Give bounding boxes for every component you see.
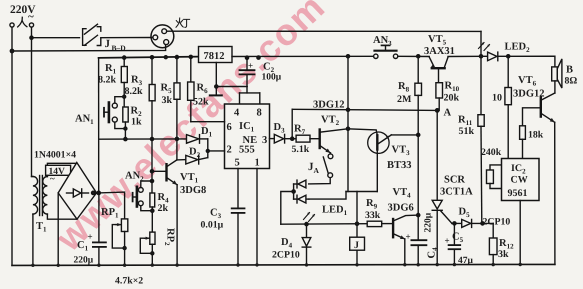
node dot C5 top <box>453 222 456 225</box>
node dot AN2 bottom <box>151 209 154 212</box>
wire bridge plus to RP1 <box>99 192 125 219</box>
svg-text:8Ω: 8Ω <box>565 76 578 87</box>
svg-text:4: 4 <box>234 108 240 119</box>
wire VT1 emitter column <box>176 185 178 265</box>
svg-text:D4: D4 <box>281 237 293 250</box>
wire to switch <box>32 37 80 39</box>
diode D1 <box>187 126 213 143</box>
node dot BT33 emitter <box>417 133 420 136</box>
resistor R6 <box>188 57 209 122</box>
wire col bottom link <box>346 191 377 193</box>
wire D1 D2 join vertical <box>207 139 209 158</box>
transformer T1 primary <box>32 177 38 266</box>
node dot gnd <box>215 85 218 88</box>
svg-text:R5: R5 <box>161 83 173 96</box>
node junction <box>30 36 33 39</box>
wire pin8 stub <box>259 93 261 104</box>
node dot AN1 bottom <box>124 127 127 130</box>
svg-text:52k: 52k <box>193 97 209 108</box>
svg-text:VT5: VT5 <box>428 34 447 47</box>
wire gnd to C2 <box>216 86 247 88</box>
thyristor SCR <box>432 110 473 265</box>
svg-text:555: 555 <box>239 145 255 156</box>
svg-text:2: 2 <box>227 145 232 156</box>
wire IC2 bottom <box>519 201 521 265</box>
wire pin6 <box>191 121 225 123</box>
label 240k <box>481 147 502 158</box>
node dot C2 bottom <box>246 85 248 87</box>
wire bottom rail <box>12 264 555 265</box>
wire A rail <box>292 109 437 110</box>
svg-text:D5: D5 <box>459 207 471 220</box>
node dot RP2 wiper <box>151 252 154 255</box>
svg-text:20k: 20k <box>444 93 460 104</box>
svg-text:2k: 2k <box>158 203 169 214</box>
label 1N4001x4 <box>34 150 76 161</box>
svg-text:VT1: VT1 <box>180 172 199 185</box>
svg-text:LED2: LED2 <box>505 42 531 55</box>
resistor R1 <box>98 58 127 97</box>
svg-text:1: 1 <box>255 158 260 169</box>
wire Vcc rail left section <box>99 57 199 58</box>
resistor R12 <box>489 223 514 265</box>
IC U1 NE555 <box>225 104 270 169</box>
node dot VT1 base <box>150 170 153 173</box>
svg-text:8: 8 <box>257 108 262 119</box>
node dot A <box>436 109 439 112</box>
wire LED1b right <box>309 192 346 200</box>
svg-text:R9: R9 <box>366 198 378 211</box>
diode D2 <box>177 147 208 165</box>
svg-text:+: + <box>88 232 93 242</box>
node dot R6 top <box>189 55 192 58</box>
wire D5 line <box>452 222 493 224</box>
svg-text:C5: C5 <box>452 232 464 245</box>
wire R5 down to D2 line <box>176 139 178 160</box>
wire pin4 stub <box>239 93 241 104</box>
svg-text:3k: 3k <box>162 95 173 106</box>
diode LED1a <box>294 180 306 188</box>
wire main column down <box>347 56 349 191</box>
IC U2 CW9561 <box>502 159 540 201</box>
label A <box>444 108 452 119</box>
svg-text:+: + <box>445 236 450 246</box>
diode LED1b <box>294 195 309 203</box>
svg-text:SCR: SCR <box>444 175 465 186</box>
node dot J top <box>355 222 358 225</box>
transistor VT4 <box>388 187 419 265</box>
node dot R11 top <box>479 55 482 58</box>
svg-text:9561: 9561 <box>508 188 528 199</box>
transistor VT5 <box>424 34 455 83</box>
svg-text:100μ: 100μ <box>262 73 282 83</box>
svg-text:VT3: VT3 <box>392 145 411 158</box>
node dot R2 bottom <box>124 138 127 141</box>
transistor VT2 <box>313 100 348 153</box>
node dot 240k col <box>481 222 484 225</box>
speaker B <box>552 59 578 88</box>
wire speaker to VT6 <box>554 81 556 93</box>
node dot AN1 top <box>123 95 126 98</box>
svg-text:VT4: VT4 <box>393 187 412 200</box>
svg-text:T1: T1 <box>36 221 47 234</box>
svg-text:33k: 33k <box>365 210 381 221</box>
resistor R5 <box>161 57 181 139</box>
transistor VT6 <box>513 75 555 122</box>
svg-text:0.01μ: 0.01μ <box>201 220 224 231</box>
svg-text:VT6: VT6 <box>518 75 537 88</box>
node dot R8 top <box>417 55 420 58</box>
label lamp <box>176 18 190 27</box>
svg-text:R8: R8 <box>398 81 410 94</box>
wire A rail left leg <box>291 109 293 138</box>
node dot R1 top <box>123 56 126 59</box>
wire LED1 to rail <box>281 192 294 225</box>
wire socket top rail <box>167 30 481 32</box>
wire LED relay rail <box>281 223 367 226</box>
svg-text:6: 6 <box>227 122 232 133</box>
node dot col A rail <box>346 108 349 111</box>
transistor VT1 <box>152 160 206 196</box>
svg-text:51k: 51k <box>459 126 475 137</box>
wire Vcc rail mid section <box>232 55 373 57</box>
diode D3 <box>274 122 297 143</box>
wire bridge plus to C1 <box>97 192 99 194</box>
svg-text:D2: D2 <box>189 147 201 160</box>
relay coil J <box>350 237 365 265</box>
resistor R7 <box>292 124 320 156</box>
svg-text:3DG12: 3DG12 <box>513 89 545 100</box>
relay contact JA <box>308 153 333 184</box>
svg-text:BT33: BT33 <box>387 160 412 171</box>
resistor R8 <box>397 56 422 135</box>
resistor R11 <box>458 115 484 224</box>
node dot D3 R7 <box>291 137 294 140</box>
node dot C2 top <box>245 56 248 59</box>
node 220V terminal N <box>29 23 33 27</box>
svg-text:3CT1A: 3CT1A <box>440 187 473 198</box>
node dot D4 top <box>305 223 308 226</box>
relay contact J B-D <box>83 24 127 52</box>
svg-text:+: + <box>248 61 253 71</box>
svg-text:VT2: VT2 <box>321 115 340 128</box>
node dot VT4 collector <box>417 214 420 217</box>
diode D5 <box>459 207 511 228</box>
svg-text:R10: R10 <box>445 81 460 94</box>
button AN1 <box>75 97 125 129</box>
svg-text:D3: D3 <box>274 122 286 135</box>
transformer T1 secondary <box>36 163 77 233</box>
capacitor C5 <box>445 223 474 266</box>
node dot extra <box>164 56 167 59</box>
svg-text:2M: 2M <box>397 94 412 105</box>
svg-text:JA: JA <box>308 161 320 175</box>
svg-text:1N4001×4: 1N4001×4 <box>34 150 76 161</box>
wire pin1 column <box>256 169 258 266</box>
lamp socket <box>151 25 174 48</box>
transistor VT3 BT33 <box>348 129 418 192</box>
button AN2 <box>125 171 152 211</box>
svg-text:3DG8: 3DG8 <box>180 185 206 196</box>
wire R11 column <box>480 56 482 114</box>
svg-text:4.7k×2: 4.7k×2 <box>115 276 143 287</box>
node dot R3 bottom <box>150 137 153 140</box>
resistor 240k <box>487 165 502 189</box>
node dot R5 bottom <box>175 137 178 140</box>
svg-text:18k: 18k <box>528 130 544 141</box>
svg-text:10: 10 <box>492 93 502 104</box>
wire D1 line <box>99 138 187 140</box>
wire rail AN3 to VT5 <box>398 55 429 57</box>
capacitor C4 <box>406 135 440 265</box>
diode LED2 <box>479 42 531 61</box>
wire bridge plus column <box>98 58 100 193</box>
svg-text:CW: CW <box>511 175 528 186</box>
resistor R2 <box>123 97 142 139</box>
svg-text:5.1k: 5.1k <box>292 144 310 155</box>
regulator 7812 <box>199 47 233 63</box>
node dot R5 top <box>175 56 178 59</box>
node dot LED1 <box>292 190 295 193</box>
wire rail down to LED2 line <box>480 31 482 56</box>
svg-text:LED1: LED1 <box>322 205 348 218</box>
wire into pin2 <box>208 150 225 152</box>
wire VT6 base left <box>523 108 541 126</box>
svg-text:3k: 3k <box>498 249 509 260</box>
capacitor C1 <box>74 193 106 266</box>
node dots bottom rail <box>31 263 522 267</box>
wire switch to socket <box>101 37 153 39</box>
resistor R9 <box>365 198 393 227</box>
transformer core <box>40 176 43 216</box>
resistor R10 <box>436 81 460 111</box>
svg-text:3DG12: 3DG12 <box>313 100 345 111</box>
watermark www.elecfans.com <box>48 0 334 259</box>
svg-text:3: 3 <box>262 135 267 146</box>
svg-text:www.elecfans.com: www.elecfans.com <box>48 0 334 259</box>
wire LED2 to speaker <box>508 56 555 67</box>
node dot col rail <box>346 55 349 58</box>
node dot LED2 <box>507 55 510 58</box>
potentiometer RP1 <box>101 207 128 265</box>
node dot AN2 top <box>150 179 153 182</box>
svg-text:5: 5 <box>235 158 240 169</box>
svg-text:220μ: 220μ <box>424 212 434 232</box>
capacitor C3 <box>201 208 245 266</box>
svg-text:~: ~ <box>50 174 55 184</box>
svg-text:R7: R7 <box>294 124 306 137</box>
svg-text:3DG6: 3DG6 <box>388 203 414 214</box>
wire bridge minus down <box>57 193 59 266</box>
svg-text:2CP10: 2CP10 <box>272 250 300 261</box>
wire R3 column down <box>151 139 153 193</box>
resistor R4 <box>150 192 169 232</box>
resistor 10 <box>492 56 511 158</box>
svg-text:2CP10: 2CP10 <box>483 217 511 228</box>
wire right terminal down <box>31 27 33 176</box>
wire J column <box>356 192 358 238</box>
bridge rectifier <box>58 163 96 220</box>
node dot R3 top <box>150 56 153 59</box>
svg-text:+: + <box>406 232 411 242</box>
svg-text:A: A <box>444 108 452 119</box>
label LED1 <box>322 205 348 218</box>
label 4.7k x2 <box>115 276 143 287</box>
node dot pin2 <box>206 149 209 152</box>
resistor 16k <box>520 126 544 159</box>
svg-text:8.2k: 8.2k <box>98 75 117 86</box>
node dot RP1 wiper <box>123 247 126 250</box>
svg-text:B: B <box>566 65 573 76</box>
diode D4 <box>272 224 311 265</box>
wire 555 pins 4 8 rail <box>240 92 260 94</box>
wire 7812 gnd pin <box>215 63 217 96</box>
node dot bridge plus <box>92 191 95 194</box>
node dot left terminal rail <box>10 49 13 52</box>
svg-text:8.2k: 8.2k <box>125 86 144 97</box>
node dot VT2 collector <box>346 127 349 130</box>
resistor R3 <box>125 57 156 139</box>
wire rail VT5 to LED2 <box>448 55 481 57</box>
svg-text:AN3: AN3 <box>373 35 392 48</box>
node dot C2 top b <box>257 56 260 59</box>
capacitor C2 <box>240 58 282 93</box>
svg-text:J: J <box>354 240 359 251</box>
svg-text:7812: 7812 <box>204 51 225 62</box>
svg-text:~: ~ <box>28 11 34 23</box>
wire 220V return rail <box>12 45 166 51</box>
LED1 arrows <box>304 212 315 222</box>
wire pin3 to D3 <box>270 138 275 140</box>
svg-text:3AX31: 3AX31 <box>424 46 455 57</box>
wire left edge down <box>11 27 13 265</box>
svg-text:220μ: 220μ <box>74 256 94 266</box>
svg-text:J: J <box>105 38 111 50</box>
svg-text:1k: 1k <box>131 117 142 128</box>
potentiometer RP2 <box>140 228 175 265</box>
node 220V terminal L <box>10 23 14 27</box>
ground bar 7812 <box>210 94 222 96</box>
svg-text:C3: C3 <box>210 208 222 221</box>
svg-text:240k: 240k <box>481 147 502 158</box>
wire pin5 column <box>237 169 239 209</box>
wire LED1 left link <box>293 184 295 199</box>
node dot bridge plus b <box>97 191 100 194</box>
label 220V <box>10 4 36 23</box>
wire VT6 emitter down <box>554 122 556 264</box>
label 14V <box>46 165 71 183</box>
svg-text:AN1: AN1 <box>75 114 94 127</box>
svg-text:RP2: RP2 <box>163 228 176 246</box>
button AN3 <box>373 35 398 59</box>
